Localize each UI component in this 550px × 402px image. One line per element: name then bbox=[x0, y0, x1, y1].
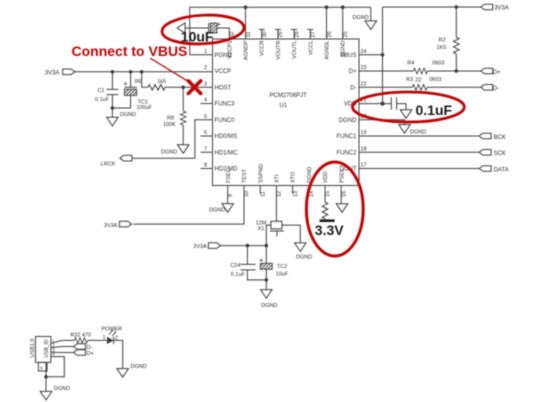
svg-text:DGND: DGND bbox=[131, 364, 147, 370]
svg-text:DATA: DATA bbox=[494, 167, 509, 173]
svg-text:DGND: DGND bbox=[339, 118, 357, 124]
svg-text:AGNDP: AGNDP bbox=[244, 40, 250, 60]
svg-text:0.1uF: 0.1uF bbox=[416, 102, 453, 118]
svg-text:VCCP: VCCP bbox=[215, 69, 232, 75]
svg-text:XTO: XTO bbox=[291, 171, 297, 183]
svg-text:1: 1 bbox=[103, 335, 106, 341]
svg-text:PCM2706PJT: PCM2706PJT bbox=[270, 93, 308, 99]
svg-text:13: 13 bbox=[293, 191, 299, 197]
svg-text:26: 26 bbox=[327, 31, 333, 37]
svg-text:10uF: 10uF bbox=[276, 271, 289, 277]
svg-text:14: 14 bbox=[309, 191, 315, 197]
svg-text:R32 470: R32 470 bbox=[70, 332, 91, 338]
svg-text:C24: C24 bbox=[230, 263, 240, 269]
svg-text:C1: C1 bbox=[98, 88, 105, 94]
svg-text:2: 2 bbox=[115, 336, 118, 342]
svg-text:12: 12 bbox=[277, 191, 283, 197]
svg-text:D-: D- bbox=[350, 85, 356, 91]
svg-text:VCCP1: VCCP1 bbox=[227, 41, 233, 59]
svg-text:TC2: TC2 bbox=[277, 264, 287, 270]
svg-text:VOUTR: VOUTR bbox=[276, 40, 282, 59]
svg-text:23: 23 bbox=[361, 65, 367, 71]
svg-text:R4: R4 bbox=[407, 61, 414, 67]
svg-text:D+: D+ bbox=[87, 351, 94, 357]
svg-text:5: 5 bbox=[204, 114, 207, 120]
svg-text:28: 28 bbox=[294, 31, 300, 37]
svg-text:FUNC3: FUNC3 bbox=[215, 102, 236, 108]
svg-text:VCCR: VCCR bbox=[260, 40, 266, 56]
svg-text:USB_ID: USB_ID bbox=[44, 339, 50, 357]
svg-text:DGND: DGND bbox=[161, 149, 177, 155]
svg-text:3V3A: 3V3A bbox=[494, 6, 509, 12]
svg-text:31: 31 bbox=[246, 31, 252, 37]
svg-text:5: 5 bbox=[40, 365, 43, 370]
svg-text:6: 6 bbox=[204, 130, 207, 136]
svg-text:Connect to VBUS: Connect to VBUS bbox=[72, 43, 188, 59]
svg-text:3V3A: 3V3A bbox=[193, 244, 207, 250]
svg-text:DGND: DGND bbox=[341, 40, 347, 56]
svg-text:2: 2 bbox=[204, 65, 207, 71]
svg-text:+: + bbox=[217, 20, 222, 29]
svg-text:24: 24 bbox=[361, 49, 367, 55]
svg-text:15: 15 bbox=[325, 191, 331, 197]
svg-text:VOUTL: VOUTL bbox=[292, 41, 298, 59]
svg-text:R6: R6 bbox=[135, 79, 142, 85]
svg-text:SSPND: SSPND bbox=[258, 164, 264, 183]
svg-text:DGND: DGND bbox=[410, 130, 426, 136]
svg-text:D+: D+ bbox=[349, 69, 357, 75]
svg-text:PSEL: PSEL bbox=[339, 169, 345, 183]
svg-text:TEST: TEST bbox=[242, 168, 248, 183]
svg-text:7: 7 bbox=[204, 146, 207, 152]
svg-text:R3: R3 bbox=[406, 77, 413, 83]
svg-text:3V3A: 3V3A bbox=[104, 223, 118, 229]
svg-text:FSEL: FSEL bbox=[226, 169, 232, 183]
svg-text:0603: 0603 bbox=[429, 77, 441, 83]
svg-text:1: 1 bbox=[204, 49, 207, 55]
svg-text:22: 22 bbox=[415, 78, 421, 84]
svg-text:FUNC0: FUNC0 bbox=[215, 118, 236, 124]
svg-text:D-: D- bbox=[493, 86, 499, 92]
svg-text:HOST: HOST bbox=[215, 85, 232, 91]
svg-text:DGND: DGND bbox=[296, 255, 312, 261]
svg-text:19: 19 bbox=[361, 130, 367, 136]
svg-text:17: 17 bbox=[361, 163, 367, 169]
svg-text:HD0/MS: HD0/MS bbox=[215, 134, 238, 140]
svg-text:USB1.0: USB1.0 bbox=[30, 339, 36, 358]
svg-text:16: 16 bbox=[341, 191, 347, 197]
svg-text:10: 10 bbox=[244, 191, 250, 197]
svg-text:DGND: DGND bbox=[209, 208, 225, 214]
svg-text:SCK: SCK bbox=[494, 151, 506, 157]
svg-text:DGND: DGND bbox=[120, 112, 136, 118]
svg-text:R8: R8 bbox=[167, 116, 174, 122]
svg-text:22: 22 bbox=[361, 81, 367, 87]
svg-text:3.3V: 3.3V bbox=[315, 222, 344, 238]
svg-text:LRCK: LRCK bbox=[101, 162, 116, 168]
svg-text:XTI: XTI bbox=[275, 174, 281, 183]
svg-text:0603: 0603 bbox=[432, 61, 444, 67]
svg-text:0.1uF: 0.1uF bbox=[231, 272, 246, 278]
svg-text:10uF: 10uF bbox=[181, 29, 214, 45]
svg-text:4: 4 bbox=[204, 98, 207, 104]
svg-text:D-: D- bbox=[87, 345, 93, 351]
svg-text:100uF: 100uF bbox=[136, 105, 152, 111]
svg-text:11: 11 bbox=[260, 191, 266, 197]
svg-text:25: 25 bbox=[343, 31, 349, 37]
svg-text:100K: 100K bbox=[163, 122, 176, 128]
svg-text:18: 18 bbox=[361, 146, 367, 152]
svg-text:1K5: 1K5 bbox=[437, 45, 447, 51]
svg-text:DGND: DGND bbox=[261, 303, 277, 309]
svg-text:3: 3 bbox=[204, 81, 207, 87]
svg-text:VCCL: VCCL bbox=[308, 41, 314, 56]
svg-text:U1: U1 bbox=[280, 103, 288, 109]
svg-text:9: 9 bbox=[228, 194, 234, 197]
svg-text:DGND: DGND bbox=[353, 15, 369, 21]
svg-text:FUNC2: FUNC2 bbox=[336, 150, 357, 156]
svg-text:X1: X1 bbox=[258, 226, 265, 232]
svg-text:30: 30 bbox=[262, 31, 268, 37]
svg-text:0.1uF: 0.1uF bbox=[95, 97, 110, 103]
svg-text:29: 29 bbox=[278, 31, 284, 37]
svg-text:D+: D+ bbox=[493, 70, 501, 76]
svg-text:BCK: BCK bbox=[494, 135, 506, 141]
svg-text:AGNDL: AGNDL bbox=[325, 41, 331, 60]
svg-text:VDD: VDD bbox=[323, 171, 329, 183]
svg-text:3V3A: 3V3A bbox=[45, 70, 60, 76]
svg-text:1k5: 1k5 bbox=[157, 79, 166, 85]
svg-text:+: + bbox=[123, 79, 128, 88]
svg-text:27: 27 bbox=[311, 31, 317, 37]
svg-text:8: 8 bbox=[204, 163, 207, 169]
svg-text:FUNC1: FUNC1 bbox=[336, 134, 357, 140]
svg-text:R2: R2 bbox=[439, 38, 446, 44]
svg-text:HD1/MC: HD1/MC bbox=[215, 150, 239, 156]
svg-text:DGND: DGND bbox=[54, 386, 70, 392]
